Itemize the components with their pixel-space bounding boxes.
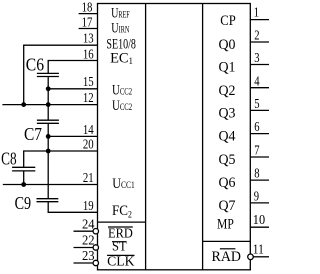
IC left-section horizontal divider above ERD xyxy=(98,221,146,223)
wire pin 22 stub xyxy=(74,247,94,249)
svg-text:1: 1 xyxy=(254,6,259,21)
wire pin 20 to C8 xyxy=(24,151,98,167)
wire pin 17 stub xyxy=(79,28,98,30)
pin 24 inversion bubble xyxy=(93,229,98,234)
capacitor C6 plates xyxy=(37,72,59,74)
wire pin 4 stub xyxy=(250,87,269,89)
ground bus vertical segment C7 bottom to C9 top xyxy=(47,123,49,198)
wire pin 14 xyxy=(48,135,97,137)
svg-text:18: 18 xyxy=(82,1,93,16)
svg-text:15: 15 xyxy=(83,75,94,90)
IC internal vertical divider left xyxy=(145,4,147,270)
svg-text:3: 3 xyxy=(254,51,259,66)
svg-text:Q7: Q7 xyxy=(219,198,236,214)
pin 11 inversion bubble xyxy=(248,254,254,260)
svg-text:Q1: Q1 xyxy=(219,60,236,76)
pin 23 inversion bubble xyxy=(93,260,98,265)
IC U1 SE10/8 body outline xyxy=(98,4,251,270)
wire pin 1 stub xyxy=(250,19,269,21)
wire pin 8 stub xyxy=(250,179,269,181)
junction node C8/pin21 rail xyxy=(21,182,26,187)
wire pin 11 stub xyxy=(253,256,269,258)
svg-text:4: 4 xyxy=(254,74,259,89)
svg-text:UCC1: UCC1 xyxy=(112,175,134,191)
svg-text:8: 8 xyxy=(254,167,259,182)
svg-text:6: 6 xyxy=(254,120,259,135)
wire pin 9 stub xyxy=(250,202,269,204)
svg-text:C8: C8 xyxy=(1,148,16,168)
wire pin 21 rail xyxy=(3,184,98,186)
wire pin 3 stub xyxy=(250,64,269,66)
wire pin 2 stub xyxy=(250,41,269,43)
svg-text:FC2: FC2 xyxy=(112,202,132,219)
wire pin 24 stub xyxy=(74,230,94,232)
svg-text:23: 23 xyxy=(82,249,95,264)
svg-text:12: 12 xyxy=(83,91,94,106)
svg-text:C9: C9 xyxy=(15,193,32,213)
pin 22 inversion bubble xyxy=(93,245,98,250)
wire pin 16 to C6 xyxy=(48,61,97,74)
junction node pin20/ground bus xyxy=(46,149,51,154)
junction node pin12/ground bus xyxy=(46,102,51,107)
svg-text:10: 10 xyxy=(253,213,265,228)
capacitor C8 plates xyxy=(12,166,35,168)
svg-text:CP: CP xyxy=(220,13,236,29)
junction node pin14/ground bus xyxy=(46,134,51,139)
svg-text:Q0: Q0 xyxy=(219,37,236,53)
wire pin 5 stub xyxy=(250,109,269,111)
wire pin 12 rail xyxy=(2,104,97,106)
svg-text:24: 24 xyxy=(82,217,95,232)
svg-text:C7: C7 xyxy=(24,124,42,144)
svg-text:19: 19 xyxy=(83,199,94,214)
IC right-section horizontal divider above RAD xyxy=(203,240,251,242)
svg-text:UCC2: UCC2 xyxy=(112,97,132,113)
junction node pin12/left bus xyxy=(21,102,26,107)
svg-text:Q4: Q4 xyxy=(219,129,236,145)
wire pin 19 from C9 xyxy=(48,202,97,213)
svg-text:5: 5 xyxy=(254,97,259,112)
svg-text:Q5: Q5 xyxy=(219,152,236,168)
capacitor C9 plates xyxy=(37,198,59,200)
wire pin 13 xyxy=(24,45,98,104)
IC internal vertical divider right xyxy=(202,4,204,270)
svg-text:RAD: RAD xyxy=(212,249,242,265)
svg-text:ST: ST xyxy=(112,239,127,254)
svg-text:9: 9 xyxy=(254,190,259,205)
svg-text:MP: MP xyxy=(217,217,234,233)
svg-text:UCC2: UCC2 xyxy=(112,82,132,98)
svg-text:Q6: Q6 xyxy=(219,175,236,191)
svg-text:11: 11 xyxy=(253,243,264,258)
svg-text:C6: C6 xyxy=(26,55,44,75)
svg-text:14: 14 xyxy=(83,123,94,138)
svg-text:Q2: Q2 xyxy=(219,83,236,99)
wire pin 23 stub xyxy=(74,262,94,264)
svg-text:Q3: Q3 xyxy=(219,106,236,122)
svg-text:UIRN: UIRN xyxy=(111,20,129,36)
svg-text:17: 17 xyxy=(82,15,93,30)
svg-text:UREF: UREF xyxy=(111,5,130,21)
svg-text:7: 7 xyxy=(254,144,259,159)
junction node pin15/bus xyxy=(46,86,51,91)
svg-text:16: 16 xyxy=(83,48,94,63)
wire pin 6 stub xyxy=(250,133,269,135)
wire C8 bottom stub to pin-21 rail xyxy=(23,171,25,185)
wire pin 10 stub xyxy=(250,226,269,228)
svg-text:13: 13 xyxy=(83,31,94,46)
svg-text:22: 22 xyxy=(82,233,95,248)
wire pin 7 stub xyxy=(250,156,269,158)
svg-text:EC1: EC1 xyxy=(110,50,133,66)
wire pin 15 xyxy=(48,88,97,90)
svg-text:20: 20 xyxy=(83,137,94,152)
wire pin 18 stub xyxy=(79,13,98,15)
svg-text:21: 21 xyxy=(83,171,94,186)
ground bus vertical segment C6 bottom to C7 top xyxy=(47,77,49,121)
capacitor C7 plates xyxy=(37,119,59,121)
svg-text:2: 2 xyxy=(254,29,259,44)
